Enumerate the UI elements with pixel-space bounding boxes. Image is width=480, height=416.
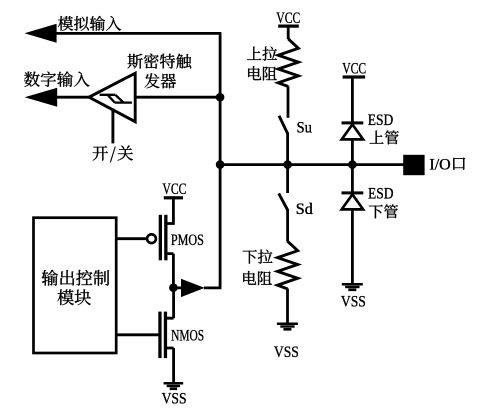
node junction I/O line / rail	[216, 160, 225, 169]
ground VSS (NMOS)	[164, 382, 184, 385]
svg-text:NMOS: NMOS	[171, 327, 204, 344]
arrow analog input (points left)	[25, 24, 57, 43]
label 电阻 (pull-down)	[243, 271, 272, 285]
label 斯密特触发器 (line 2)	[145, 73, 177, 88]
node junction at Schmitt tap	[216, 93, 225, 102]
label 输出控制	[42, 270, 110, 286]
wire gate from control box to NMOS	[116, 333, 159, 336]
wire resistor to ground	[286, 289, 289, 324]
wire VCC to ESD top diode	[351, 78, 354, 122]
resistor R-pullup 上拉电阻	[278, 39, 298, 87]
ground VSS (pull-down)	[277, 323, 298, 326]
block output control module box	[34, 218, 117, 353]
wire Sd to resistor	[286, 210, 289, 242]
wire digital-input: arrow to Schmitt output tip	[57, 96, 91, 99]
label 数字输入	[24, 71, 89, 87]
wire NMOS source to ground	[165, 348, 173, 383]
node junction driver output	[169, 283, 178, 292]
hysteresis symbol inside U1	[100, 95, 132, 103]
diode D1 ESD 上管	[342, 121, 364, 124]
wire rail to switch Sd	[286, 165, 289, 193]
wire driver output to arrow	[173, 286, 221, 289]
node junction pull-up/pull-down at rail	[283, 160, 292, 169]
label 模拟输入	[58, 16, 121, 31]
label 下管	[369, 204, 398, 218]
transistor Q1 PMOS symbol bars	[159, 215, 162, 260]
wire U1 input from I/O node	[135, 96, 220, 99]
label 斯密特触发器 (line 1)	[128, 54, 192, 69]
svg-text:VCC: VCC	[162, 181, 186, 198]
svg-text:VCC: VCC	[342, 61, 366, 78]
transistor Q2 NMOS symbol bars	[158, 312, 161, 359]
label 下拉	[243, 250, 273, 264]
wire main I/O rail	[220, 163, 404, 166]
arrow digital input (points left)	[25, 88, 58, 107]
gate bubble of PMOS	[147, 234, 156, 243]
pad I/O square	[403, 155, 424, 175]
node junction ESD at rail	[348, 160, 357, 169]
wire D2 to ground	[351, 209, 354, 284]
diode D2 ESD 下管	[342, 191, 364, 194]
label 模块	[58, 289, 91, 305]
switch Sd blade	[279, 193, 288, 210]
wire D1 to rail	[351, 139, 354, 165]
arrow driver output (points right into I/O line)	[181, 279, 205, 297]
svg-text:VSS: VSS	[274, 344, 299, 361]
svg-text:I/O: I/O	[429, 156, 450, 173]
svg-text:VSS: VSS	[341, 294, 366, 311]
wire PMOS drain down to output node	[166, 254, 174, 288]
wire gate from control box to PMOS bubble	[116, 237, 147, 240]
wire NMOS drain up to output node	[165, 288, 173, 319]
svg-text:VSS: VSS	[162, 390, 187, 407]
label 上管	[370, 130, 399, 144]
wire rail to D2	[351, 165, 354, 192]
label 开/关	[93, 146, 133, 163]
op-amp/buffer U1: Schmitt trigger triangle (output to left)	[89, 73, 135, 122]
ground VSS (ESD)	[342, 283, 363, 286]
switch Su blade	[279, 116, 288, 134]
wire Su to rail	[286, 133, 289, 166]
wire resistor to switch Su	[287, 86, 290, 118]
label 口 (I/O口)	[453, 158, 465, 170]
svg-text:Sd: Sd	[296, 201, 313, 218]
wire enable stub below U1	[111, 109, 114, 144]
svg-text:ESD: ESD	[368, 112, 394, 129]
svg-text:Su: Su	[297, 119, 313, 136]
wire VCC to PMOS source	[164, 199, 173, 225]
wire analog-input net: horizontal run and vertical drop to I/O line	[56, 33, 221, 288]
label 电阻 (pull-up)	[248, 66, 277, 80]
svg-text:PMOS: PMOS	[171, 232, 204, 249]
resistor R-pulldown 下拉电阻	[278, 241, 298, 289]
label 上拉	[247, 47, 277, 61]
svg-text:ESD: ESD	[368, 186, 394, 203]
wire VCC to resistor	[287, 28, 290, 40]
